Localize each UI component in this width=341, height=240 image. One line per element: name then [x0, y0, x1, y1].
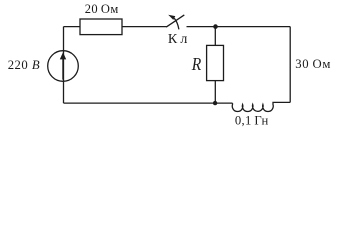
svg-text:20 Ом: 20 Ом	[85, 2, 119, 16]
source U1 circle	[48, 51, 79, 82]
wire resistor R to node B	[214, 81, 216, 104]
node A junction dot	[213, 24, 218, 29]
resistor R1 20 Om box	[80, 19, 122, 35]
source arrow	[60, 52, 66, 79]
wire bottom horizontal	[64, 102, 233, 104]
switch arrow head	[168, 15, 175, 20]
wire left vertical	[63, 27, 65, 104]
svg-text:30 Ом: 30 Ом	[295, 57, 330, 71]
wire node A down to resistor R	[214, 27, 216, 46]
switch Kl blade	[166, 15, 184, 27]
wire node A to top-right corner	[216, 26, 291, 28]
switch arrow arc	[174, 18, 179, 29]
svg-text:R: R	[191, 54, 201, 74]
svg-text:0,1 Гн: 0,1 Гн	[235, 113, 269, 127]
svg-text:220 В: 220 В	[8, 58, 40, 72]
wire switch to node A	[187, 26, 216, 28]
inductor L1 coil	[232, 102, 290, 111]
node B junction dot	[213, 101, 217, 105]
resistor R box	[207, 45, 224, 80]
wire top-left horizontal	[64, 26, 81, 28]
wire right vertical	[289, 27, 291, 103]
svg-text:Кл: Кл	[168, 32, 188, 47]
wire resistor to switch	[122, 26, 167, 28]
